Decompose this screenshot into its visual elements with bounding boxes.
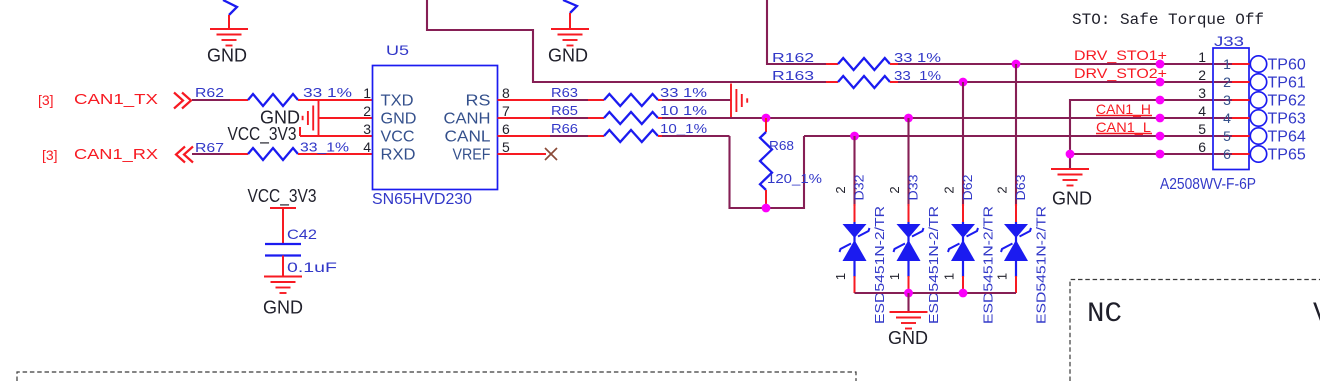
wire: [898, 63, 1213, 65]
diode D33 body: [894, 222, 924, 277]
test point TP61: [1268, 75, 1306, 92]
net label CAN1_H: [1096, 101, 1152, 117]
svg-text:1: 1: [942, 273, 957, 280]
svg-text:33_1%: 33_1%: [894, 68, 942, 83]
value 10 1%: [660, 103, 708, 118]
net label DRV_STO1+: [1074, 47, 1167, 63]
pin name CANH: [444, 111, 491, 128]
node bus GND: [904, 289, 913, 298]
wire: [550, 135, 588, 137]
node D32 tap: [850, 132, 859, 141]
pin number 5: [502, 139, 510, 155]
test point TP60: [1268, 57, 1306, 74]
resistor R63 label: [551, 85, 578, 100]
svg-text:[3]: [3]: [38, 92, 54, 108]
pin number 2 of D63: [995, 186, 1010, 193]
wire D62 drop: [962, 82, 964, 206]
svg-text:VCC: VCC: [381, 129, 415, 146]
wire: [550, 99, 588, 101]
svg-text:10 1%: 10 1%: [660, 103, 708, 118]
node bus D62: [959, 289, 968, 298]
connector J33 body: [1213, 48, 1249, 170]
svg-text:1: 1: [1223, 56, 1231, 72]
pin number 6 of J33: [1198, 139, 1206, 155]
wire: [192, 99, 232, 101]
svg-text:3: 3: [1198, 85, 1206, 101]
connector J33 refdes: [1214, 33, 1244, 49]
wire: [427, 0, 828, 82]
wire: [658, 135, 664, 137]
wire D32 pin2 stub: [854, 204, 856, 223]
svg-text:NC: NC: [1087, 299, 1122, 330]
pin number 2 of D33: [887, 186, 902, 193]
node DRV_STO1+ junction: [1012, 60, 1021, 69]
wire D33 pin1 stub: [908, 276, 910, 293]
wire: [192, 153, 232, 155]
svg-text:TP62: TP62: [1268, 93, 1306, 110]
ground: [264, 277, 302, 294]
svg-text:1: 1: [363, 85, 371, 101]
svg-text:7: 7: [502, 103, 510, 119]
pin number 6: [502, 121, 510, 137]
J33 pin 2 circle: [1250, 74, 1266, 90]
dashed frame bottom-right: [1070, 280, 1320, 381]
node gnd junction: [1066, 150, 1075, 159]
svg-text:2: 2: [942, 186, 957, 193]
svg-text:R66: R66: [551, 121, 578, 136]
wire: [498, 153, 547, 155]
resistor R66: [604, 130, 658, 142]
pin number 2 of D32: [833, 186, 848, 193]
port sheet ref [3]: [42, 147, 58, 163]
svg-text:TP60: TP60: [1268, 57, 1306, 74]
svg-text:RXD: RXD: [381, 147, 416, 164]
net label VCC_3V3: [228, 124, 297, 145]
value 10_1%: [660, 121, 708, 136]
svg-text:33 1%: 33 1%: [303, 85, 353, 100]
pin name GND: [381, 111, 417, 128]
svg-text:ESD5451N-2/TR: ESD5451N-2/TR: [872, 206, 887, 324]
svg-text:C42: C42: [287, 226, 317, 242]
note STO: [1072, 11, 1264, 29]
wire: [662, 135, 730, 137]
svg-text:D62: D62: [960, 175, 975, 201]
wire: [588, 99, 604, 101]
port CAN1_TX: [74, 91, 158, 108]
svg-text:5: 5: [1198, 121, 1206, 137]
value 120_1%: [767, 171, 822, 186]
svg-text:5: 5: [502, 139, 510, 155]
refdes D63: [1013, 175, 1028, 201]
svg-text:DRV_STO1+: DRV_STO1+: [1074, 47, 1167, 63]
resistor R68: [760, 132, 772, 190]
svg-text:STO: Safe Torque Off: STO: Safe Torque Off: [1072, 11, 1264, 29]
svg-text:120_1%: 120_1%: [767, 171, 822, 186]
wire: [588, 117, 604, 119]
wire D33 pin2 stub: [908, 204, 910, 223]
J33 pin 5 circle: [1250, 128, 1266, 144]
J33 inner pin 3: [1214, 92, 1251, 108]
value 33_1%: [300, 140, 350, 155]
svg-text:6: 6: [1198, 139, 1206, 155]
wire: [767, 0, 828, 64]
svg-text:4: 4: [363, 139, 371, 155]
pin number 2 of J33: [1198, 67, 1206, 83]
svg-text:3: 3: [1223, 92, 1231, 108]
wire D32 drop: [853, 136, 855, 206]
ground: [890, 312, 928, 329]
node: [1156, 132, 1165, 141]
J33 pin 1 circle: [1250, 56, 1266, 72]
wire: [230, 99, 248, 101]
svg-text:TP64: TP64: [1268, 129, 1306, 146]
resistor R63: [604, 94, 658, 106]
svg-text:R65: R65: [551, 103, 578, 118]
ground flag: [303, 100, 319, 136]
resistor R65: [604, 112, 658, 124]
svg-text:GND: GND: [381, 111, 417, 128]
svg-text:2: 2: [363, 103, 371, 119]
resistor R163: [838, 76, 890, 88]
resistor R162: [838, 58, 890, 70]
net label CAN1_L: [1096, 119, 1152, 135]
svg-text:R63: R63: [551, 85, 578, 100]
wire D63 drop: [1015, 64, 1017, 206]
svg-text:GND: GND: [1052, 189, 1092, 209]
pin number 2 of D62: [942, 186, 957, 193]
port CAN1_RX: [74, 146, 158, 163]
wire CANL: [804, 135, 1213, 137]
wire: [765, 118, 767, 132]
value 0.1uF: [287, 259, 337, 275]
resistor R67: [248, 148, 298, 160]
refdes D62: [960, 175, 975, 201]
net label GND: [548, 46, 588, 66]
wire: [498, 117, 553, 119]
pin number 4: [363, 139, 371, 155]
svg-text:U5: U5: [386, 42, 409, 58]
svg-text:2: 2: [833, 186, 848, 193]
svg-text:33 1%: 33 1%: [894, 50, 942, 65]
svg-text:1: 1: [833, 273, 848, 280]
node: [1156, 114, 1165, 123]
pin name RS: [466, 93, 491, 110]
wire: [228, 15, 230, 29]
capacitor C42 label: [287, 226, 317, 242]
wire: [890, 81, 900, 83]
wire: [230, 153, 248, 155]
svg-text:33 1%: 33 1%: [660, 85, 708, 100]
svg-text:R62: R62: [195, 85, 224, 100]
resistor R162 label: [772, 50, 814, 65]
port sheet ref [3]: [38, 92, 54, 108]
svg-text:GND: GND: [888, 328, 928, 348]
svg-text:VREF: VREF: [453, 147, 491, 164]
J33 inner pin 5: [1214, 128, 1251, 144]
wire: [826, 63, 838, 65]
svg-text:1: 1: [887, 273, 902, 280]
resistor R62 label: [195, 85, 224, 100]
svg-text:2: 2: [995, 186, 1010, 193]
pin number 3: [363, 121, 371, 137]
pin number 1 of D32: [833, 273, 848, 280]
svg-text:CAN1_L: CAN1_L: [1096, 119, 1151, 135]
node: [1156, 150, 1165, 159]
wire: [300, 135, 373, 137]
wire D63 pin2 stub: [1015, 204, 1017, 223]
node: [1156, 60, 1165, 69]
pin number 1 of D33: [887, 273, 902, 280]
wire D63 pin1 stub: [1015, 276, 1017, 293]
svg-text:GND: GND: [548, 46, 588, 66]
test point TP63: [1268, 111, 1306, 128]
node DRV_STO2+ junction: [959, 78, 968, 87]
svg-text:RS: RS: [466, 93, 491, 110]
svg-text:D63: D63: [1013, 175, 1028, 201]
svg-text:V: V: [1313, 299, 1320, 330]
port arrow out: [174, 93, 191, 109]
wire: [569, 13, 571, 29]
ground flag: [731, 84, 747, 118]
diode D32 body: [840, 222, 870, 277]
svg-text:2: 2: [887, 186, 902, 193]
svg-text:DRV_STO2+: DRV_STO2+: [1074, 65, 1167, 81]
J33 pin 3 circle: [1250, 92, 1266, 108]
net label GND: [260, 108, 300, 128]
net label VCC_3V3: [248, 186, 317, 207]
wire: [498, 135, 553, 137]
wire D62 pin1 stub: [962, 276, 964, 293]
wire: [282, 208, 284, 243]
J33 inner pin 1: [1214, 56, 1251, 72]
svg-text:R68: R68: [769, 138, 794, 153]
note NC: [1087, 299, 1122, 330]
svg-text:CANL: CANL: [445, 129, 491, 146]
wire CANH: [662, 117, 1213, 119]
wire: [319, 117, 373, 119]
resistor (partial, off-sheet top): [563, 0, 577, 13]
wire CANL jog: [730, 136, 805, 208]
svg-text:1: 1: [1198, 49, 1206, 65]
svg-text:ESD5451N-2/TR: ESD5451N-2/TR: [1034, 206, 1049, 324]
test point TP62: [1268, 93, 1306, 110]
svg-text:CAN1_TX: CAN1_TX: [74, 91, 158, 108]
value 33_1%: [894, 68, 942, 83]
test point TP64: [1268, 129, 1306, 146]
part number ESD5451N-2/TR of D32: [872, 206, 887, 324]
net label GND: [1052, 189, 1092, 209]
svg-text:TXD: TXD: [381, 93, 414, 110]
svg-text:CAN1_H: CAN1_H: [1096, 101, 1151, 117]
pin number 8: [502, 85, 510, 101]
pin number 1 of J33: [1198, 49, 1206, 65]
svg-text:6: 6: [502, 121, 510, 137]
svg-text:6: 6: [1223, 146, 1231, 162]
pin number 5 of J33: [1198, 121, 1206, 137]
resistor R67 label: [195, 140, 224, 155]
svg-text:CANH: CANH: [444, 111, 491, 128]
pin number 2: [363, 103, 371, 119]
node R68 bottom: [762, 204, 771, 213]
part number ESD5451N-2/TR of D62: [981, 206, 996, 324]
svg-text:D33: D33: [906, 175, 921, 201]
ground: [210, 29, 248, 46]
pin name TXD: [381, 93, 414, 110]
svg-text:2: 2: [1223, 74, 1231, 90]
svg-text:10_1%: 10_1%: [660, 121, 708, 136]
svg-text:2: 2: [1198, 67, 1206, 83]
refdes U5: [386, 42, 409, 58]
pin name RXD: [381, 147, 416, 164]
net label GND: [207, 46, 247, 66]
dashed frame bottom-left: [17, 372, 856, 381]
svg-text:TP63: TP63: [1268, 111, 1306, 128]
wire: [298, 99, 373, 101]
wire: [662, 99, 731, 101]
pin number 3 of J33: [1198, 85, 1206, 101]
node: [1156, 78, 1165, 87]
J33 pin 6 circle: [1250, 146, 1266, 162]
resistor R65 label: [551, 103, 578, 118]
no-connect X: [545, 148, 557, 160]
pin number 1: [363, 85, 371, 101]
svg-text:VCC_3V3: VCC_3V3: [248, 186, 317, 207]
resistor R62: [248, 94, 298, 106]
svg-text:VCC_3V3: VCC_3V3: [228, 124, 297, 145]
svg-text:5: 5: [1223, 128, 1231, 144]
resistor (partial, off-sheet top): [223, 0, 237, 15]
wire pin3 gnd: [1070, 100, 1213, 169]
value 33 1%: [660, 85, 708, 100]
svg-text:SN65HVD230: SN65HVD230: [372, 191, 472, 208]
test point TP65: [1268, 147, 1306, 164]
pin number 1 of D62: [942, 273, 957, 280]
ground: [551, 29, 589, 46]
power bar: [270, 207, 296, 209]
svg-text:TP65: TP65: [1268, 147, 1306, 164]
J33 inner pin 6: [1214, 146, 1251, 162]
wire: [826, 81, 838, 83]
part number ESD5451N-2/TR of D33: [926, 206, 941, 324]
part number SN65HVD230: [372, 191, 472, 208]
refdes D33: [906, 175, 921, 201]
part number ESD5451N-2/TR of D63: [1034, 206, 1049, 324]
diode D62 body: [948, 222, 978, 277]
wire: [658, 117, 664, 119]
pin name VREF: [453, 147, 491, 164]
resistor R66 label: [551, 121, 578, 136]
wire D62 pin2 stub: [962, 204, 964, 223]
svg-text:D32: D32: [852, 175, 867, 201]
svg-text:ESD5451N-2/TR: ESD5451N-2/TR: [981, 206, 996, 324]
wire: [658, 99, 664, 101]
wire: [907, 293, 909, 312]
wire: [498, 99, 553, 101]
svg-text:R163: R163: [772, 68, 814, 83]
wire: [890, 63, 900, 65]
svg-text:8: 8: [502, 85, 510, 101]
wire pin6 gnd: [1070, 153, 1213, 155]
wire: [298, 153, 373, 155]
pin number 7: [502, 103, 510, 119]
wire: [765, 190, 767, 208]
pin name VCC: [381, 129, 415, 146]
capacitor C42 plates: [265, 244, 301, 256]
net label GND: [263, 298, 303, 318]
pin name CANL: [445, 129, 491, 146]
wire: [282, 256, 284, 278]
value 33 1%: [894, 50, 942, 65]
svg-text:TP61: TP61: [1268, 75, 1306, 92]
resistor R68 label: [769, 138, 794, 153]
value 33 1%: [303, 85, 353, 100]
wire D33 drop: [907, 118, 909, 206]
svg-text:33_1%: 33_1%: [300, 140, 350, 155]
svg-text:GND: GND: [207, 46, 247, 66]
J33 inner pin 4: [1214, 110, 1251, 126]
node R68 top: [762, 114, 771, 123]
pin number 4 of J33: [1198, 103, 1206, 119]
svg-text:R162: R162: [772, 50, 814, 65]
wire diode bus: [855, 292, 1017, 294]
node: [1156, 96, 1165, 105]
svg-text:0.1uF: 0.1uF: [287, 259, 337, 275]
svg-text:J33: J33: [1214, 33, 1244, 49]
op-amp U5 body: [373, 66, 498, 190]
svg-text:CAN1_RX: CAN1_RX: [74, 146, 158, 163]
wire: [550, 117, 588, 119]
J33 inner pin 2: [1214, 74, 1251, 90]
part number A2508WV-F-6P: [1160, 176, 1256, 193]
node D33 tap: [904, 114, 913, 123]
svg-text:[3]: [3]: [42, 147, 58, 163]
wire D32 pin1 stub: [854, 276, 856, 293]
svg-text:ESD5451N-2/TR: ESD5451N-2/TR: [926, 206, 941, 324]
svg-text:1: 1: [995, 273, 1010, 280]
port arrow in: [176, 147, 193, 163]
svg-text:4: 4: [1223, 110, 1231, 126]
note V (cut): [1313, 299, 1320, 330]
refdes D32: [852, 175, 867, 201]
svg-text:GND: GND: [263, 298, 303, 318]
net label DRV_STO2+: [1074, 65, 1167, 81]
svg-text:A2508WV-F-6P: A2508WV-F-6P: [1160, 176, 1256, 193]
J33 pin 4 circle: [1250, 110, 1266, 126]
power stem: [299, 127, 301, 136]
pin number 1 of D63: [995, 273, 1010, 280]
diode D63 body: [1001, 222, 1031, 277]
wire: [588, 135, 604, 137]
wire: [898, 81, 1213, 83]
svg-text:4: 4: [1198, 103, 1206, 119]
ground: [1051, 169, 1089, 186]
svg-text:3: 3: [363, 121, 371, 137]
resistor R163 label: [772, 68, 814, 83]
net label GND: [888, 328, 928, 348]
svg-text:R67: R67: [195, 140, 224, 155]
